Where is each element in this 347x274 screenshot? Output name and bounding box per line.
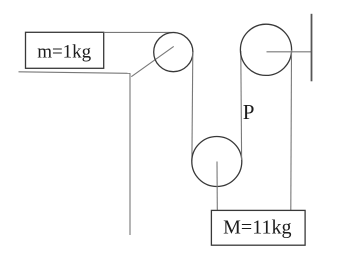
wall xyxy=(311,14,313,82)
mass box m=1kg xyxy=(26,32,104,68)
pulley 2 (top right) xyxy=(240,24,291,75)
mass box M=11kg xyxy=(211,210,305,245)
pulley 3 (lower middle) xyxy=(192,137,242,187)
wire: pulley 1 right tangent down to pulley 3 xyxy=(191,52,194,161)
svg-text:m=1kg: m=1kg xyxy=(37,41,91,62)
wire: pulley 3 axle down to mass box M xyxy=(216,162,218,211)
pulley 1 xyxy=(154,33,193,72)
wire: diagonal into pulley 1 xyxy=(131,46,173,76)
wire: lower horizontal under box xyxy=(19,72,131,74)
wire: box top to pulley 1 xyxy=(104,31,176,33)
wire: pulley 2 axle to wall xyxy=(267,51,312,53)
wire: pulley 3 right tangent up to pulley 2 xyxy=(240,51,243,160)
wire: long left vertical xyxy=(129,73,131,235)
svg-text:P: P xyxy=(243,100,255,124)
wire: pulley 2 right tangent down to mass box M xyxy=(290,50,293,210)
svg-text:M=11kg: M=11kg xyxy=(223,217,291,239)
